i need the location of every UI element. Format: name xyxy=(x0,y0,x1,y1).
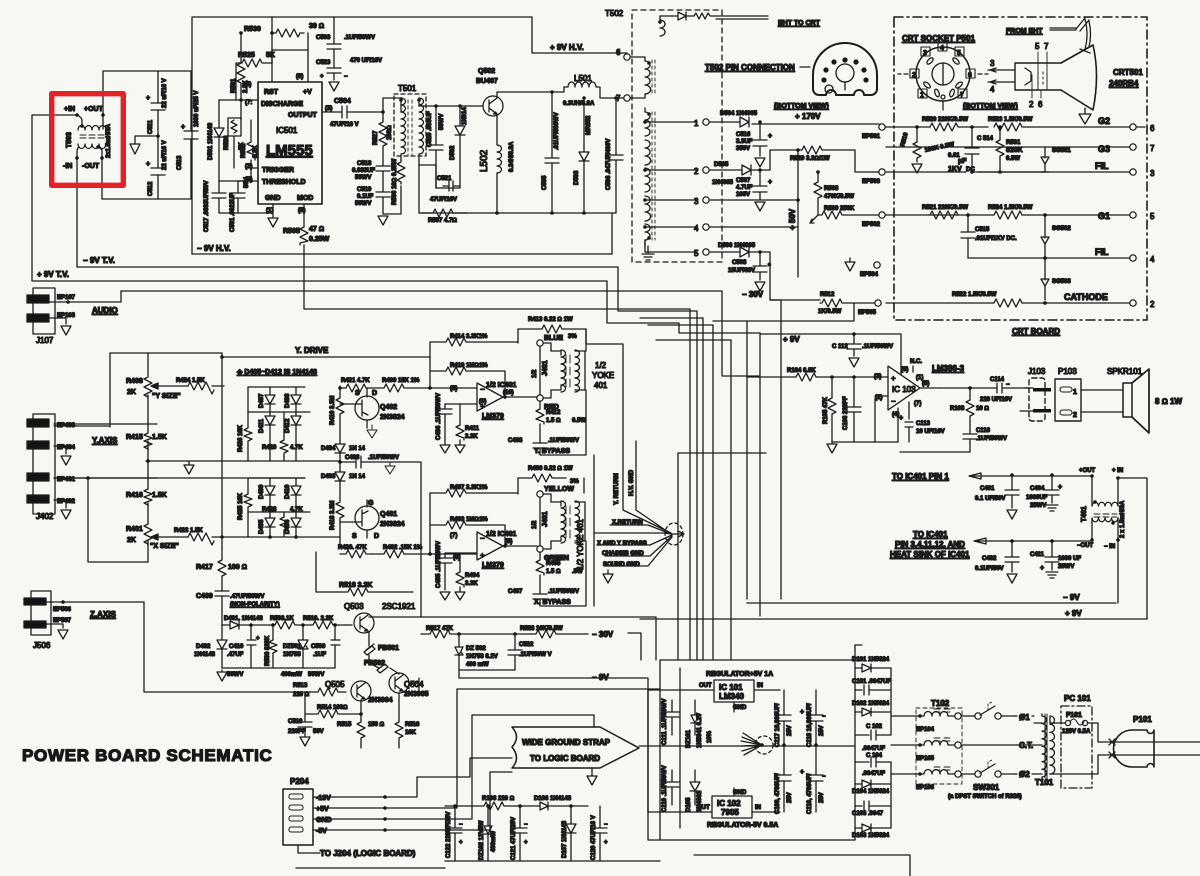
svg-text:TRIGGER: TRIGGER xyxy=(262,167,294,174)
capacitor C522 xyxy=(508,634,552,670)
svg-text:(3): (3) xyxy=(325,106,332,112)
CRT socket P501 xyxy=(898,42,1018,110)
svg-text:-OUT: -OUT xyxy=(82,163,100,170)
svg-text:LM386-3: LM386-3 xyxy=(932,364,965,373)
diode D105 xyxy=(686,770,703,812)
svg-text:YOKE: YOKE xyxy=(592,371,614,380)
CRT tube neck arrows xyxy=(988,59,1014,94)
svg-text:+: + xyxy=(1058,484,1062,491)
svg-text:R506 10Ω 0.25W: R506 10Ω 0.25W xyxy=(392,158,398,205)
svg-text:50WV: 50WV xyxy=(355,201,371,207)
svg-text:8 Ω 1W: 8 Ω 1W xyxy=(1155,397,1182,406)
capacitor C117 xyxy=(775,690,793,747)
zener DZ102 xyxy=(479,804,497,861)
svg-text:125V 0.5A: 125V 0.5A xyxy=(1062,729,1091,735)
svg-text:TO IC401: TO IC401 xyxy=(913,530,948,539)
diode D406 xyxy=(285,512,301,537)
svg-text:R520 220K/0.5W: R520 220K/0.5W xyxy=(922,117,968,123)
resistor R105 47K xyxy=(823,375,836,442)
capacitor C507 xyxy=(736,168,772,211)
svg-text:+ 50V: + 50V xyxy=(788,208,797,230)
svg-text:EP107: EP107 xyxy=(57,295,76,301)
svg-text:+OUT: +OUT xyxy=(1079,468,1096,474)
capacitor C512 xyxy=(146,136,168,199)
JFET Q402 xyxy=(340,388,405,438)
zener DZ101 xyxy=(686,700,713,748)
svg-text:+: + xyxy=(768,179,772,186)
svg-text:R411: R411 xyxy=(465,426,480,432)
svg-text:P204: P204 xyxy=(290,777,309,786)
svg-text:D505: D505 xyxy=(714,162,729,168)
svg-text:4.7K: 4.7K xyxy=(290,507,303,513)
transformer T502 dashed box xyxy=(605,9,722,262)
resistor R513 220 xyxy=(293,683,346,698)
svg-text:C410: C410 xyxy=(229,644,244,650)
capacitor C113 xyxy=(899,408,945,442)
svg-text:T101: T101 xyxy=(1035,778,1054,787)
svg-text:SW301: SW301 xyxy=(973,783,1000,792)
svg-text:.1UF/50WV: .1UF/50WV xyxy=(548,589,579,595)
capacitor C409 xyxy=(196,591,280,625)
svg-text:240RB4: 240RB4 xyxy=(1109,79,1139,88)
svg-text:DZ501: DZ501 xyxy=(283,644,302,650)
ground CRT funnel xyxy=(1079,108,1091,124)
capacitor C517 xyxy=(204,181,226,232)
svg-text:-5V: -5V xyxy=(316,828,327,835)
svg-text:R502: R502 xyxy=(241,143,247,158)
svg-text:J103: J103 xyxy=(1028,367,1046,376)
svg-text:50WV: 50WV xyxy=(439,114,445,130)
ground under C519 xyxy=(378,216,388,225)
svg-text:R523 1.5K/0.5W: R523 1.5K/0.5W xyxy=(988,117,1033,123)
svg-text:R409 15K 1%: R409 15K 1% xyxy=(382,378,420,384)
svg-text:0.3UH/0.8A: 0.3UH/0.8A xyxy=(563,101,595,107)
svg-text:YELLOW: YELLOW xyxy=(544,486,574,493)
svg-text:1.5K: 1.5K xyxy=(152,492,167,499)
svg-text:1/2: 1/2 xyxy=(532,520,538,529)
svg-text:R419 3.3M: R419 3.3M xyxy=(330,396,336,425)
diode D402 xyxy=(194,625,227,668)
svg-text:R410 1MΩ1%: R410 1MΩ1% xyxy=(450,363,488,369)
svg-text:C103 .0047: C103 .0047 xyxy=(852,811,884,817)
svg-text:HEAT SINK OF IC401: HEAT SINK OF IC401 xyxy=(890,550,970,559)
diode D502 1N914 xyxy=(450,106,468,188)
svg-text:T501: T501 xyxy=(398,84,417,93)
svg-text:15UF/63V: 15UF/63V xyxy=(728,268,755,274)
svg-text:R421 4.7K: R421 4.7K xyxy=(341,378,370,384)
svg-text:GND: GND xyxy=(265,195,281,202)
svg-text:R406 0.22 Ω 1W: R406 0.22 Ω 1W xyxy=(528,466,573,472)
svg-text:C402: C402 xyxy=(982,556,997,562)
svg-text:FB501: FB501 xyxy=(378,645,399,652)
svg-text:MR852: MR852 xyxy=(586,115,592,135)
G3 terminal xyxy=(1098,144,1155,154)
resistor R512 xyxy=(818,292,874,315)
wire X input bus vertical xyxy=(221,353,223,548)
svg-text:R407 3.3K1%: R407 3.3K1% xyxy=(450,485,488,491)
svg-text:C404: C404 xyxy=(1030,486,1045,492)
svg-text:D411: D411 xyxy=(259,418,265,433)
wire mid vertical bundle xyxy=(678,309,766,660)
svg-text:P101: P101 xyxy=(1133,715,1152,724)
svg-text:*: * xyxy=(768,263,771,270)
svg-text:1N753: 1N753 xyxy=(283,652,301,658)
wire Q503 collector line xyxy=(369,617,656,660)
svg-text:−: − xyxy=(604,822,608,828)
svg-text:WIDE GROUND STRAP: WIDE GROUND STRAP xyxy=(522,738,611,747)
svg-text:3.3K: 3.3K xyxy=(465,581,478,587)
svg-text:C121 47UF/25V: C121 47UF/25V xyxy=(511,817,517,860)
capacitor C506 xyxy=(606,96,623,213)
svg-text:2 x 1.5mH/3A: 2 x 1.5mH/3A xyxy=(1120,500,1126,538)
pot R401 X size xyxy=(126,522,340,550)
plug P101 xyxy=(1114,715,1155,767)
svg-text:25V: 25V xyxy=(787,792,793,803)
resistor R420 47K xyxy=(338,545,372,558)
diode D408 xyxy=(285,387,301,412)
svg-text:25WV: 25WV xyxy=(1058,564,1074,570)
svg-text:0.25W: 0.25W xyxy=(309,236,330,243)
svg-text:J401: J401 xyxy=(542,360,549,376)
svg-text:5: 5 xyxy=(1150,212,1155,221)
svg-text:2K: 2K xyxy=(127,389,136,396)
resistor R414 3.3K1% feedback xyxy=(428,334,518,390)
FIL terminal 3 xyxy=(1095,161,1155,178)
wire outer loop xyxy=(192,17,627,254)
svg-text:Y.AXIS: Y.AXIS xyxy=(92,436,118,445)
label T502 PIN CONNECTION xyxy=(705,63,810,72)
svg-text:(3): (3) xyxy=(874,374,881,380)
zener DZ501 xyxy=(281,623,308,678)
svg-text:2.2K: 2.2K xyxy=(243,80,249,93)
svg-text:1/2: 1/2 xyxy=(532,369,538,378)
svg-text:R425 10K: R425 10K xyxy=(238,492,244,520)
svg-text:+ 9V: + 9V xyxy=(1065,609,1082,618)
EHT diode and resistor xyxy=(672,12,821,27)
svg-text:401: 401 xyxy=(594,381,608,390)
svg-text:R521 220K/0.5W: R521 220K/0.5W xyxy=(922,205,968,211)
capacitor C519 xyxy=(355,187,390,214)
svg-text:LM555: LM555 xyxy=(266,142,313,159)
svg-text:MOD: MOD xyxy=(297,195,313,202)
svg-text:Q502: Q502 xyxy=(478,68,495,75)
svg-text:R529 3.3Ω/1W: R529 3.3Ω/1W xyxy=(790,156,830,162)
svg-text:D105: D105 xyxy=(686,797,692,812)
resistor R416 xyxy=(126,488,167,506)
svg-text:.1UF/50WV: .1UF/50WV xyxy=(548,438,579,444)
capacitor C505 xyxy=(542,90,560,213)
svg-text:− 9V: − 9V xyxy=(1063,593,1080,602)
svg-text:C509: C509 xyxy=(311,644,326,650)
svg-text:D409: D409 xyxy=(259,484,265,499)
zener DZ502 xyxy=(455,634,498,670)
resistor R103 10ohm xyxy=(950,386,989,430)
svg-text:22 uF/16 V: 22 uF/16 V xyxy=(162,140,168,170)
svg-text:2: 2 xyxy=(912,72,916,79)
svg-text:50V: 50V xyxy=(313,729,324,735)
svg-text:L501: L501 xyxy=(574,74,592,83)
svg-text:.1UF/50WV: .1UF/50WV xyxy=(368,455,399,461)
inductor L502 xyxy=(479,141,515,213)
FIL terminal 4 xyxy=(1095,247,1155,264)
diode D410 xyxy=(285,478,301,512)
svg-text:D102 1N5624: D102 1N5624 xyxy=(852,701,890,707)
svg-text:− IN: − IN xyxy=(1104,544,1115,550)
svg-text:(BOTTOM VIEW): (BOTTOM VIEW) xyxy=(963,103,1018,110)
svg-text:CRT501: CRT501 xyxy=(1113,68,1143,77)
svg-text:+: + xyxy=(256,636,260,642)
resistor R411 3.3K xyxy=(455,423,480,453)
wire audio gnd rail xyxy=(827,396,898,453)
svg-text:R519: R519 xyxy=(900,131,910,147)
svg-text:◆ D405~D412 IS 1N4148: ◆ D405~D412 IS 1N4148 xyxy=(236,369,317,376)
resistor R527 100ohm xyxy=(373,112,393,160)
resistor R413 0.22 feedback xyxy=(518,317,586,351)
svg-text:Ø1: Ø1 xyxy=(1019,713,1030,722)
capacitor C106 xyxy=(843,375,861,442)
svg-text:C522: C522 xyxy=(519,642,534,648)
svg-text:DZ101: DZ101 xyxy=(686,729,692,748)
resistor R402 15K xyxy=(372,545,477,558)
svg-text:D101 1N5624: D101 1N5624 xyxy=(852,657,890,663)
wire staircase feeds to P204 xyxy=(385,689,660,830)
svg-text:IC 103: IC 103 xyxy=(892,385,916,394)
pot chain xyxy=(147,353,149,562)
svg-text:+: + xyxy=(146,161,150,168)
svg-text:4.7K: 4.7K xyxy=(290,445,303,451)
svg-text:G: G xyxy=(368,500,374,507)
svg-text:F101: F101 xyxy=(1066,712,1082,719)
svg-text:2N3824: 2N3824 xyxy=(380,521,405,528)
svg-text:EP504: EP504 xyxy=(860,272,879,278)
op-amp IC103 xyxy=(874,359,965,442)
svg-text:C513: C513 xyxy=(177,155,183,170)
connector J103 xyxy=(1020,367,1051,421)
svg-text:4: 4 xyxy=(694,224,699,233)
svg-text:TO LOGIC BOARD: TO LOGIC BOARD xyxy=(530,754,600,763)
svg-text:LM379: LM379 xyxy=(482,413,504,420)
wire +OUT to top rail xyxy=(103,71,192,115)
svg-text:− 30V: − 30V xyxy=(742,290,764,299)
svg-text:+: + xyxy=(891,374,896,383)
svg-text:0.5W: 0.5W xyxy=(1006,156,1020,162)
svg-text:Q504: Q504 xyxy=(404,680,424,689)
svg-text:C507: C507 xyxy=(736,178,751,184)
resistor R426 10K xyxy=(238,387,252,461)
capacitor C410 xyxy=(227,623,260,678)
svg-text:X.RETURN: X.RETURN xyxy=(612,520,643,526)
svg-text:C521: C521 xyxy=(437,176,452,182)
wire mains bottom xyxy=(1050,755,1200,774)
svg-text:D504 1N4005: D504 1N4005 xyxy=(720,111,758,117)
svg-text:R505: R505 xyxy=(283,228,300,235)
T502 core ground xyxy=(642,246,654,260)
svg-text:C508: C508 xyxy=(732,260,747,266)
svg-text:LM379: LM379 xyxy=(482,562,504,569)
svg-text:−: − xyxy=(822,774,826,780)
svg-text:.1UF: .1UF xyxy=(313,652,326,658)
transformer T501 xyxy=(394,84,426,165)
svg-text:"X SIZE": "X SIZE" xyxy=(150,543,179,550)
svg-text:FIL: FIL xyxy=(1095,247,1109,257)
svg-text:N.C.: N.C. xyxy=(910,359,922,365)
svg-text:470 UF/16V: 470 UF/16V xyxy=(350,58,382,64)
resistor R520 xyxy=(922,117,988,131)
wire +9V TV rail xyxy=(33,281,760,333)
svg-text:C505: C505 xyxy=(542,175,548,190)
svg-text:Y. DRIVE: Y. DRIVE xyxy=(295,346,329,355)
svg-text:1: 1 xyxy=(920,92,924,99)
svg-text:220PF: 220PF xyxy=(288,729,306,735)
wire pin4 xyxy=(271,17,273,82)
svg-text:(8): (8) xyxy=(450,386,457,392)
resistor R505 47ohm 0.25W xyxy=(283,204,690,309)
svg-text:CHASSIS GND: CHASSIS GND xyxy=(602,551,644,557)
G2 terminal xyxy=(1098,116,1155,133)
wire X input line xyxy=(54,478,305,562)
svg-text:(5): (5) xyxy=(922,381,929,387)
svg-text:D501 1N4148: D501 1N4148 xyxy=(208,122,214,160)
svg-text:1N5341 6.2V: 1N5341 6.2V xyxy=(697,713,703,748)
svg-text:.01UF/1KV DC.: .01UF/1KV DC. xyxy=(975,236,1017,242)
G1 terminal xyxy=(1098,211,1155,221)
ground stub from C511/C512 junction xyxy=(130,134,160,154)
svg-text:R404: R404 xyxy=(465,573,480,579)
svg-text:50WV: 50WV xyxy=(355,175,371,181)
svg-text:IC 102: IC 102 xyxy=(717,799,741,808)
svg-text:X AND Y BYPASS: X AND Y BYPASS xyxy=(597,541,647,547)
capacitor C402 xyxy=(975,539,1019,583)
svg-text:50V: 50V xyxy=(244,177,250,188)
svg-text:− 9V: − 9V xyxy=(592,673,609,682)
wire FIL4 line xyxy=(968,257,1130,259)
svg-text:1000UF: 1000UF xyxy=(1026,495,1048,501)
svg-text:0.1 UF/50V: 0.1 UF/50V xyxy=(975,496,1005,502)
svg-text:AUDIO: AUDIO xyxy=(92,306,118,315)
svg-text:D404: D404 xyxy=(321,446,336,452)
wire pin3 to +50V xyxy=(710,199,798,201)
capacitor C110 xyxy=(662,765,679,812)
transformer T503 xyxy=(63,106,112,170)
svg-text:350V: 350V xyxy=(736,146,750,152)
svg-text:C110 .1UF/50WV: C110 .1UF/50WV xyxy=(662,765,668,812)
CATHODE terminal xyxy=(1064,292,1155,309)
svg-text:+: + xyxy=(899,415,903,422)
resistor R510 2.2K xyxy=(303,616,346,629)
wire bottom rail of zener net xyxy=(217,668,335,681)
resistor R104 6.8K xyxy=(747,368,888,381)
op-amp Y 1/2 IC401 xyxy=(450,382,516,423)
svg-text:1N 14: 1N 14 xyxy=(349,474,366,480)
svg-text:R526: R526 xyxy=(224,135,230,150)
J401 Y circles xyxy=(503,335,563,411)
diode D407 xyxy=(259,387,275,412)
FROM EHT arrow xyxy=(1006,18,1091,53)
regulator enclosure wires xyxy=(648,660,855,840)
capacitor C411 xyxy=(1030,539,1081,578)
wire T501 left top to C504 xyxy=(383,98,401,112)
svg-text:1K/0.5W: 1K/0.5W xyxy=(818,309,842,315)
svg-text:IC 101: IC 101 xyxy=(719,683,743,692)
svg-text:+ 9V: + 9V xyxy=(783,335,800,344)
svg-text:R522 1.5K/0.5W: R522 1.5K/0.5W xyxy=(952,292,997,298)
svg-text:2: 2 xyxy=(1029,100,1034,109)
resistor R506 xyxy=(383,158,405,214)
wire trigger/threshold xyxy=(219,168,258,181)
svg-text:+ 9V H.V.: + 9V H.V. xyxy=(550,43,584,52)
svg-text:(BOTTOM VIEW): (BOTTOM VIEW) xyxy=(774,103,829,110)
svg-text:R429: R429 xyxy=(262,445,277,451)
svg-text:(7:: (7: xyxy=(245,100,252,106)
svg-text:+: + xyxy=(146,95,150,102)
PC101 dashed box xyxy=(1061,694,1092,788)
svg-text:C114: C114 xyxy=(990,377,1005,383)
svg-text:T401: T401 xyxy=(1081,506,1088,522)
capacitor C523 xyxy=(316,58,382,91)
svg-text:7: 7 xyxy=(1044,42,1049,51)
svg-text:1.5K: 1.5K xyxy=(152,434,167,441)
resistor R409 15K xyxy=(372,378,477,392)
svg-text:2N3904: 2N3904 xyxy=(368,697,393,704)
svg-text:.1UF/50W V: .1UF/50W V xyxy=(519,652,552,658)
svg-text:FIL: FIL xyxy=(1095,161,1109,171)
resistor R522 xyxy=(952,292,1022,307)
svg-text:EP106: EP106 xyxy=(916,785,935,791)
capacitor C407 xyxy=(508,541,586,606)
svg-text:−: − xyxy=(822,714,826,720)
wire gnd pin1 xyxy=(219,204,273,218)
svg-text:(5): (5) xyxy=(505,539,512,545)
svg-text:0.34H/0.8A: 0.34H/0.8A xyxy=(509,141,515,172)
svg-text:1/2 YOKE 401: 1/2 YOKE 401 xyxy=(576,518,585,570)
capacitor C518 xyxy=(352,160,390,188)
svg-text:D412: D412 xyxy=(285,418,291,433)
svg-text:S: S xyxy=(352,533,357,540)
resistor R407 3.3K xyxy=(428,478,518,556)
svg-text:D104 1N5624: D104 1N5624 xyxy=(852,789,890,795)
svg-text:EP502: EP502 xyxy=(862,222,881,228)
svg-text:1/2 IC401: 1/2 IC401 xyxy=(486,531,516,538)
svg-text:1.5 Ω: 1.5 Ω xyxy=(546,569,561,575)
svg-text:2K: 2K xyxy=(127,537,136,544)
svg-text:3: 3 xyxy=(1150,169,1155,178)
resistor R523 xyxy=(988,117,1130,131)
diode D403 xyxy=(321,462,366,500)
svg-text:+: + xyxy=(524,840,528,846)
diode D106 xyxy=(516,796,588,810)
svg-text:IN: IN xyxy=(755,805,761,811)
svg-text:100Ω: 100Ω xyxy=(387,125,393,140)
resistor R106 220 xyxy=(445,796,516,810)
svg-text:DZ102 12V5W: DZ102 12V5W xyxy=(479,820,485,860)
transistor Q502 xyxy=(476,68,503,116)
svg-text:H.V. GND: H.V. GND xyxy=(629,469,635,496)
svg-text:C519: C519 xyxy=(357,187,372,193)
CRT501 tube xyxy=(1015,42,1143,110)
svg-text:+5V: +5V xyxy=(316,806,329,813)
wire pin8 xyxy=(307,33,309,82)
yoke Y coils xyxy=(543,343,614,398)
svg-text:EP505: EP505 xyxy=(858,310,877,316)
svg-text:C 102: C 102 xyxy=(866,724,883,730)
svg-text:4: 4 xyxy=(990,85,995,94)
svg-text:OUTPUT: OUTPUT xyxy=(288,112,318,119)
svg-text:T502 PIN CONNECTION: T502 PIN CONNECTION xyxy=(705,63,795,72)
svg-text:T102: T102 xyxy=(931,699,950,708)
svg-text:GND: GND xyxy=(316,817,332,824)
svg-text:R516: R516 xyxy=(405,722,420,728)
svg-text:5: 5 xyxy=(1035,42,1040,51)
